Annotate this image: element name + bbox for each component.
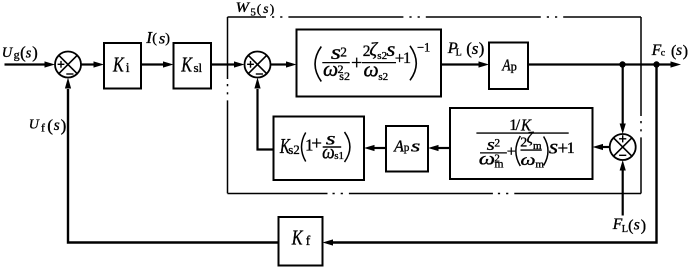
svg-text:f: f [41, 121, 45, 135]
node junction dot 2 [653, 61, 659, 67]
svg-text:1: 1 [403, 50, 411, 67]
block B1 (s2/ws2^2 + 2 zeta_s2 s/ws2 + 1)^-1 [297, 30, 442, 97]
label Uf(s) [29, 116, 67, 135]
svg-text:(: ( [628, 218, 633, 235]
svg-text:s: s [676, 42, 682, 59]
svg-text:s: s [54, 117, 60, 134]
label I(s) [145, 28, 170, 47]
svg-text:ω: ω [322, 142, 335, 163]
block Aps [386, 126, 428, 172]
svg-text:−1: −1 [417, 41, 430, 55]
svg-text:K: K [181, 52, 194, 76]
svg-text:): ) [61, 116, 67, 135]
svg-text:): ) [683, 43, 688, 60]
svg-text:(: ( [152, 30, 157, 46]
svg-text:/: / [516, 117, 521, 134]
label W5(s) [236, 0, 275, 19]
svg-text:ω: ω [323, 57, 338, 81]
svg-text:s2: s2 [288, 142, 300, 157]
dashed box W5(s) right border [640, 17, 642, 194]
block Ksl [174, 43, 212, 89]
svg-text:): ) [641, 218, 646, 235]
svg-text:): ) [165, 30, 170, 46]
svg-text:ω: ω [479, 148, 495, 168]
svg-text:U: U [2, 45, 14, 61]
svg-text:p: p [404, 142, 410, 154]
wire: Ksl to S2 [211, 63, 235, 65]
svg-text:K: K [291, 225, 303, 249]
svg-text:i: i [126, 60, 130, 75]
wire: Ap to output Fc [528, 63, 671, 65]
svg-text:s: s [411, 137, 421, 156]
svg-text:s: s [26, 46, 32, 62]
wire: Aps to Ks2 [375, 147, 387, 149]
svg-text:W: W [236, 0, 251, 16]
svg-text:1: 1 [567, 140, 575, 157]
svg-text:5: 5 [250, 7, 256, 19]
summing junction S1 [55, 52, 81, 78]
svg-text:2: 2 [494, 138, 500, 150]
block B2 1/K over (s2/wm2+(2 zeta_m/wm)s+1) [450, 108, 593, 179]
block Kf [279, 217, 323, 266]
svg-text:): ) [32, 43, 38, 62]
svg-text:g: g [14, 48, 20, 62]
svg-text:s: s [159, 30, 165, 48]
svg-text:): ) [270, 1, 274, 16]
svg-text:): ) [479, 39, 485, 58]
svg-text:c: c [661, 48, 666, 59]
svg-text:(: ( [47, 116, 53, 135]
dashed box W5(s) bottom border [228, 193, 642, 195]
wire: FL input up into S3 [622, 171, 624, 216]
label FL(s) [612, 216, 646, 235]
svg-text:2: 2 [340, 45, 347, 60]
svg-text:s: s [634, 217, 640, 234]
summing junction S3 [610, 134, 636, 160]
wire: S3 output to block B2 [603, 146, 610, 148]
block Ki [104, 43, 141, 89]
node junction dot 1 [619, 61, 625, 67]
svg-text:+: + [311, 134, 322, 155]
wire: down from dot1 to S3 [622, 65, 624, 125]
block Ks2 (1 + s/ws1) [274, 117, 365, 181]
svg-text:(: ( [257, 1, 261, 16]
dashed box W5(s) top border [228, 16, 642, 18]
svg-text:L: L [456, 48, 462, 59]
label PL(s) [447, 38, 484, 58]
label Fc(s) [651, 42, 688, 60]
svg-text:K: K [112, 52, 125, 76]
wire: S1 to Ki [81, 63, 95, 65]
wire: S2 to block B1 [271, 63, 287, 65]
svg-text:s2: s2 [339, 69, 350, 83]
dashed box W5(s) left border [227, 17, 229, 194]
block Ap [489, 43, 528, 90]
svg-text:m: m [535, 158, 544, 170]
svg-text:s2: s2 [378, 71, 388, 83]
svg-text:A: A [393, 137, 404, 156]
wire: input Ug [5, 63, 46, 65]
svg-text:sl: sl [194, 60, 203, 75]
wire: Ki to Ksl [141, 63, 164, 65]
svg-text:ω: ω [364, 57, 379, 81]
svg-text:U: U [29, 118, 40, 133]
summing junction S2 [245, 52, 271, 78]
svg-text:s: s [472, 39, 479, 58]
svg-text:s: s [263, 1, 268, 16]
label Ug(s) [2, 43, 38, 62]
svg-text:+: + [507, 143, 516, 160]
svg-text:L: L [622, 224, 628, 235]
svg-text:ω: ω [521, 152, 536, 169]
svg-text:s1: s1 [334, 150, 344, 162]
svg-text:f: f [306, 233, 311, 248]
wire: B2 to Aps [439, 147, 451, 149]
svg-text:+: + [351, 52, 362, 74]
svg-text:p: p [511, 59, 517, 73]
wire: B1 to Ap [441, 63, 480, 65]
svg-text:m: m [495, 159, 504, 171]
wire: outer feedback from dot2 down and left [333, 65, 657, 243]
wire: Kf output left and up to S1 [68, 89, 279, 243]
wire: Ks2 output to S2 bottom [258, 89, 274, 150]
